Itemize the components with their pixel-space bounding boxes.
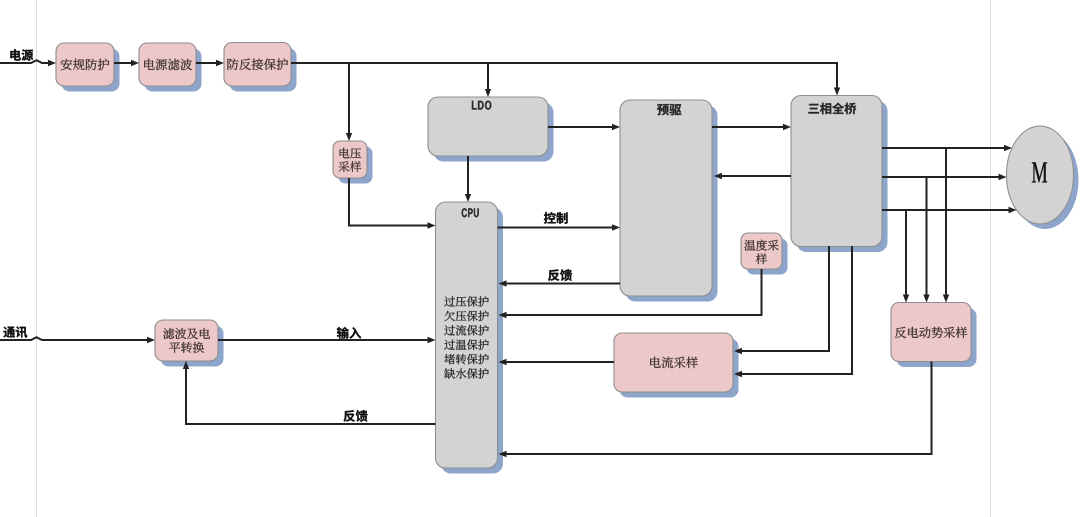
node 反馈 label lower: [344, 410, 368, 422]
block 滤波及电平转换: [155, 320, 224, 367]
wire 输入 滤波及电平转换 to CPU: [218, 337, 436, 343]
wire 三相全桥 phase U to motor: [882, 145, 1012, 151]
wire 控制 CPU to 预驱: [498, 224, 621, 230]
page boundary line left: [36, 0, 38, 517]
wire 电源滤波 to 防反接保护: [196, 60, 224, 66]
wire 预驱 to 三相全桥: [712, 124, 791, 130]
block 温度采样: [741, 233, 788, 275]
wire 三相全桥 shunt B to 电流采样: [734, 246, 852, 377]
block 防反接保护: [224, 43, 297, 92]
wire power rail 防反接保护 to 三相全桥: [291, 63, 840, 96]
node 控制 label: [544, 212, 568, 224]
wire 电源 input to 安规防护: [0, 60, 56, 66]
wire 温度采样 to CPU: [499, 269, 762, 318]
wire 反馈 预驱 to CPU: [499, 280, 621, 286]
block 电流采样: [614, 333, 739, 398]
wire LDO to CPU: [465, 156, 471, 202]
page boundary line right: [990, 0, 992, 517]
wire phase V tap to 反电动势采样: [923, 177, 929, 303]
motor M: [1007, 126, 1079, 229]
wire rail drop to LDO: [485, 63, 491, 97]
wire LDO to 预驱: [548, 124, 620, 130]
wire 反馈 CPU to 滤波及电平转换: [183, 361, 436, 424]
node 通讯 label: [3, 326, 27, 337]
wire 安规防护 to 电源滤波: [114, 60, 139, 66]
node 电源 label: [10, 49, 33, 60]
block 电压采样: [333, 141, 373, 184]
node 反馈 label upper: [548, 269, 572, 281]
block 电源滤波: [139, 43, 202, 92]
wire 电流采样 to CPU: [499, 359, 615, 365]
block 预驱: [620, 100, 718, 302]
block 安规防护: [56, 43, 120, 92]
wire 电压采样 to CPU: [349, 178, 436, 229]
wire 三相全桥 phase V to motor: [882, 174, 1007, 180]
wire 通讯 input to 滤波及电平转换: [0, 337, 155, 343]
wire phase W tap to 反电动势采样: [903, 210, 909, 303]
block 反电动势采样: [891, 303, 977, 368]
wire 三相全桥 phase W to motor: [882, 207, 1017, 213]
block LDO: [428, 97, 554, 162]
wire 三相全桥 shunt A to 电流采样: [734, 246, 829, 354]
wire rail drop to 电压采样: [346, 63, 352, 141]
block CPU: [436, 202, 504, 474]
node 输入 label: [337, 327, 361, 339]
wire 三相全桥 to 预驱: [714, 173, 791, 179]
block 三相全桥: [791, 96, 888, 253]
wire phase U tap to 反电动势采样: [943, 148, 949, 303]
wire 反电动势采样 to CPU: [499, 362, 932, 458]
